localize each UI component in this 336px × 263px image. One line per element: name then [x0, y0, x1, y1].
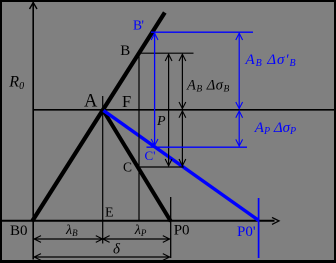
- delta dimension line y=257: [34, 256, 170, 258]
- svg-text:C': C': [145, 148, 156, 163]
- dimension line lower at x=182.4 (y 110..167): [181, 111, 183, 166]
- svg-text:P: P: [156, 114, 166, 129]
- node E vertical line: [102, 96, 104, 244]
- frame border bottom: [0, 260, 336, 263]
- frame border top: [0, 0, 336, 2]
- frame border left: [0, 0, 2, 263]
- frame border right: [334, 0, 336, 263]
- C level horizontal line: [136, 166, 184, 168]
- wire: x-axis baseline: [2, 220, 275, 222]
- svg-text:AB Δσ′B: AB Δσ′B: [245, 52, 297, 69]
- bolt line B0-B' (thick): [32, 13, 165, 222]
- svg-text:C: C: [123, 160, 132, 175]
- svg-text:A: A: [84, 92, 98, 112]
- svg-text:AB ΔσB: AB ΔσB: [186, 78, 230, 95]
- B' level blue horizontal line: [151, 31, 253, 33]
- svg-text:B0: B0: [10, 223, 28, 239]
- svg-text:B': B': [133, 18, 144, 33]
- svg-text:P0: P0: [174, 222, 190, 238]
- blue dimension AP dSigmaP (x=239.2, y 110..147): [238, 111, 240, 146]
- vertical axis R0: [32, 2, 34, 260]
- svg-text:B: B: [120, 43, 130, 59]
- svg-text:F: F: [122, 92, 131, 111]
- B-C vertical line: [138, 53, 140, 220]
- lambda dimension line y=239: [34, 238, 170, 240]
- svg-text:AP ΔσP: AP ΔσP: [254, 120, 296, 137]
- svg-text:P0': P0': [237, 224, 256, 240]
- P0' vertical blue line: [258, 198, 260, 258]
- plate line A-P0 (thick): [103, 110, 171, 221]
- x-axis arrowhead: [272, 217, 279, 224]
- axis arrowhead: [30, 3, 38, 10]
- svg-text:δ: δ: [113, 242, 121, 258]
- C' level blue horizontal line: [147, 146, 248, 148]
- P dimension blue vertical B'-C': [154, 33, 156, 146]
- P0 vertical line: [170, 197, 172, 258]
- dimension line upper at x=182.4 (y 53..109.6): [181, 54, 183, 109]
- dimension line AB dSigmaB (x=168.6, y 53..167): [168, 54, 170, 166]
- load line A-P0' (blue): [104, 111, 259, 221]
- svg-text:E: E: [105, 206, 114, 221]
- blue dimension AB dSigma'B (x=239.2, y 32..109.6): [238, 33, 240, 109]
- wire: horizontal line through A (y=109.6): [33, 109, 334, 111]
- B level horizontal line: [140, 52, 194, 54]
